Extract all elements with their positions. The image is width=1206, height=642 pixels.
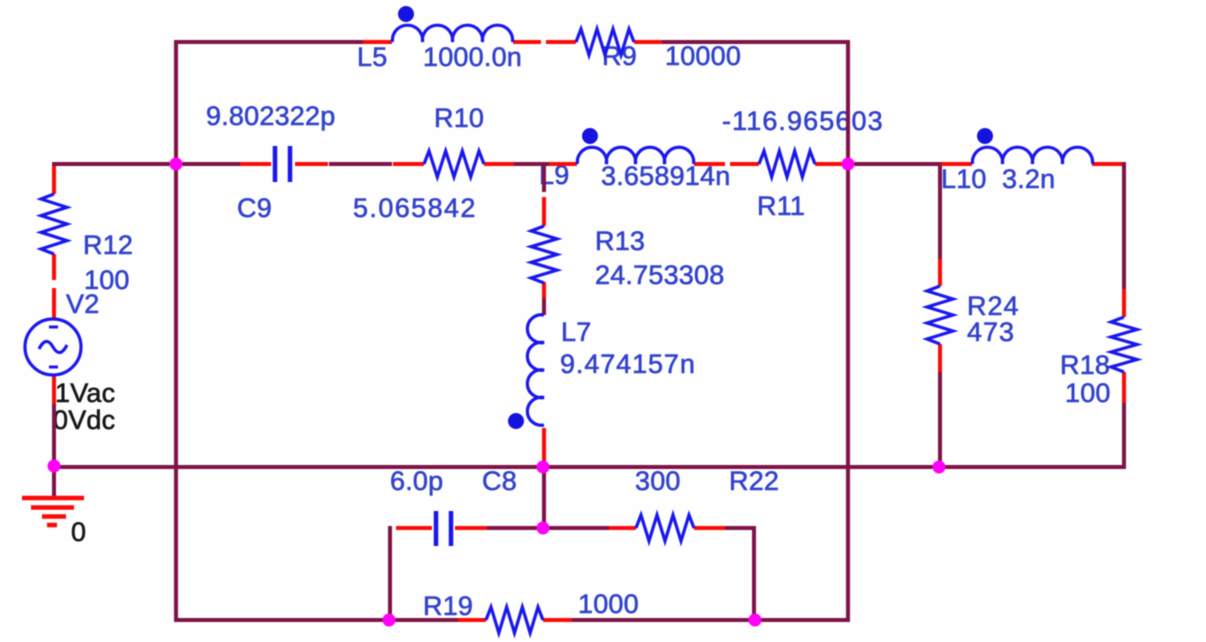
- resistor R18: [1122, 289, 1126, 317]
- junction node L7 bottom: [537, 461, 550, 474]
- wire R22 right vertical: [752, 526, 756, 622]
- svg-text:C8: C8: [482, 466, 517, 496]
- resistor R9: [546, 40, 576, 44]
- wire row2 R11 to L10 corner: [841, 162, 940, 166]
- svg-text:R10: R10: [434, 103, 484, 133]
- svg-text:3.2n: 3.2n: [1002, 164, 1055, 194]
- svg-text:6.0p: 6.0p: [390, 466, 443, 496]
- phase dot L5: [398, 6, 414, 22]
- inductor L5: [363, 40, 392, 44]
- svg-text:10000: 10000: [665, 41, 741, 71]
- wire R19 row left: [176, 618, 460, 622]
- junction node R11 output: [842, 158, 855, 171]
- wire top-right segment: [662, 40, 850, 44]
- svg-text:300: 300: [635, 466, 681, 496]
- resistor R11: [730, 162, 759, 166]
- svg-text:1Vac: 1Vac: [55, 378, 115, 408]
- svg-text:R19: R19: [423, 591, 473, 621]
- wire L10 corner down to R24: [938, 162, 942, 260]
- svg-text:1000: 1000: [578, 589, 639, 619]
- svg-text:473: 473: [967, 317, 1015, 347]
- wire right-outer vertical: [846, 42, 850, 622]
- svg-text:5.065842: 5.065842: [353, 193, 477, 223]
- junction node R19 right: [749, 614, 762, 627]
- svg-text:0Vdc: 0Vdc: [53, 405, 115, 435]
- ground 0: [22, 496, 84, 501]
- capacitor C9: [240, 162, 271, 166]
- svg-text:9.802322p: 9.802322p: [206, 101, 335, 131]
- svg-text:R13: R13: [595, 226, 645, 256]
- wire R13-L7: [542, 296, 546, 315]
- svg-text:100: 100: [1065, 378, 1111, 408]
- svg-text:R18: R18: [1060, 350, 1110, 380]
- inductor L7: [542, 428, 546, 468]
- resistor R10: [393, 162, 424, 166]
- svg-text:24.753308: 24.753308: [595, 260, 724, 290]
- junction node R24 bottom: [933, 461, 946, 474]
- junction node V2/ground: [48, 460, 61, 473]
- wire junction to ground: [52, 467, 56, 498]
- wire R22 right short: [725, 526, 756, 530]
- svg-text:R12: R12: [83, 230, 133, 260]
- junction node at C9 input: [170, 158, 183, 171]
- wire row2 left (V2 top to C9): [52, 162, 240, 166]
- svg-text:C9: C9: [237, 193, 272, 223]
- svg-text:R11: R11: [757, 191, 805, 221]
- wire left vertical: [174, 40, 178, 622]
- phase dot L10: [977, 128, 993, 144]
- resistor R19: [458, 618, 486, 622]
- svg-text:V2: V2: [66, 289, 99, 319]
- wire middle junction down to C8 row: [542, 467, 546, 530]
- wire R18 bottom: [1122, 402, 1126, 469]
- wire C8 row middle: [486, 526, 610, 530]
- wire R19 row right: [571, 618, 850, 622]
- svg-text:0: 0: [71, 517, 86, 547]
- capacitor C8: [396, 526, 432, 530]
- resistor R22: [609, 526, 636, 530]
- svg-text:9.474157n: 9.474157n: [560, 349, 696, 379]
- voltage source V2: [52, 288, 56, 319]
- wire bottom main: [52, 465, 1126, 469]
- wire middle column top corner: [542, 162, 546, 192]
- junction node R19 left: [383, 614, 396, 627]
- junction node C8 row: [537, 522, 550, 535]
- svg-text:L5: L5: [357, 42, 387, 72]
- wire right vertical top (to R18): [1122, 162, 1126, 290]
- wire R24 bottom: [938, 371, 942, 469]
- wire top-left segment: [176, 40, 363, 44]
- resistor R24: [938, 259, 942, 286]
- svg-text:-116.965603: -116.965603: [722, 106, 884, 136]
- wire C8 left vertical: [388, 526, 392, 622]
- phase dot L9: [582, 128, 598, 144]
- resistor R12: [52, 166, 56, 194]
- wire row2 R10-L9 corner: [514, 162, 550, 166]
- svg-text:L10: L10: [941, 164, 987, 194]
- resistor R13: [542, 197, 546, 226]
- svg-text:L7: L7: [561, 317, 591, 347]
- svg-text:1000.0n: 1000.0n: [423, 42, 522, 72]
- wire row2 C9-R10: [329, 162, 392, 166]
- wire V2 bottom to junction: [52, 404, 56, 467]
- inductor L9: [549, 162, 577, 166]
- phase dot L7: [508, 413, 524, 429]
- inductor L10: [941, 162, 972, 166]
- svg-text:R22: R22: [729, 466, 779, 496]
